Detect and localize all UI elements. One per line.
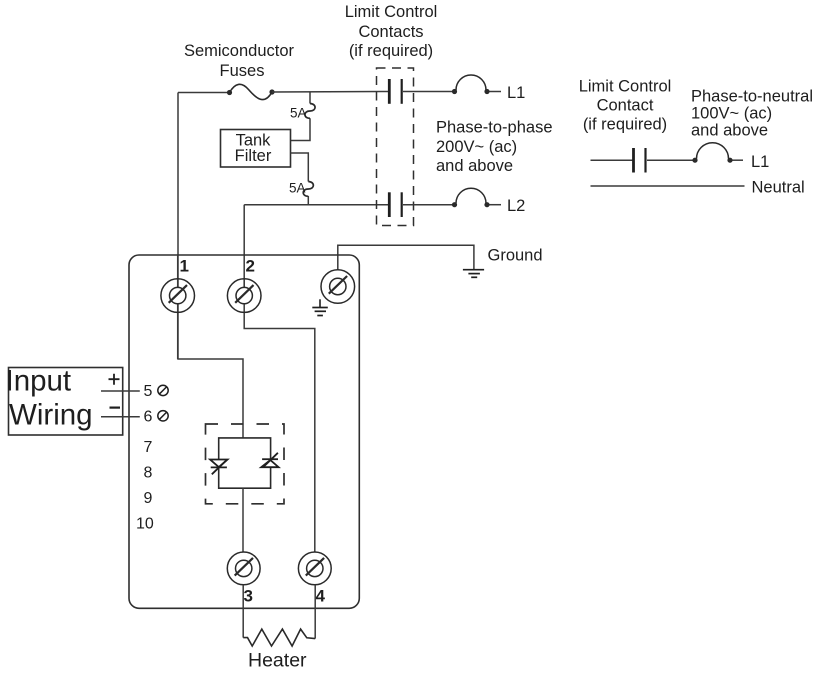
label Semiconductor Fuses	[184, 42, 295, 80]
label Phase-to-phase 200V (ac) and above	[436, 119, 553, 176]
svg-text:Heater: Heater	[248, 650, 307, 672]
right diagram: wire contact to plug	[647, 159, 695, 161]
right diagram: wire L1 left	[591, 159, 633, 161]
wire terminal 2 to terminal 4	[244, 279, 315, 552]
svg-text:100V~ (ac): 100V~ (ac)	[691, 105, 772, 123]
wire fuse to contact K1	[272, 91, 388, 94]
wire left drop from fuse to terminal 1	[178, 93, 243, 439]
svg-text:1: 1	[180, 257, 189, 276]
svg-text:L1: L1	[507, 84, 525, 102]
input wiring box	[6, 365, 123, 436]
svg-text:4: 4	[316, 587, 326, 606]
ground symbol top right	[463, 270, 484, 278]
svg-text:200V~ (ac): 200V~ (ac)	[436, 138, 517, 156]
pin 6 no-connect circle	[158, 411, 168, 421]
plus mark	[109, 374, 120, 385]
plug arc L1	[452, 75, 501, 94]
svg-text:Ground: Ground	[488, 247, 543, 265]
wire SCR to terminal 3	[242, 488, 244, 552]
svg-text:Input: Input	[6, 365, 72, 398]
wire input minus to pin 6	[101, 416, 140, 418]
tank filter box	[221, 130, 291, 168]
wire contact K2 to plug L2	[403, 204, 455, 206]
svg-text:Phase-to-neutral: Phase-to-neutral	[691, 88, 813, 106]
plug arc L2	[452, 188, 501, 207]
wire ground terminal to earth	[338, 245, 474, 270]
svg-text:(if required): (if required)	[349, 42, 433, 60]
svg-text:Wiring: Wiring	[9, 399, 93, 432]
svg-text:6: 6	[144, 408, 153, 425]
fuse 5A upper branch wire	[291, 92, 311, 141]
svg-text:L1: L1	[751, 153, 769, 171]
svg-text:2: 2	[246, 257, 255, 276]
wire contact K1 to plug L1	[403, 91, 455, 93]
terminal 2 screw	[227, 279, 261, 313]
svg-text:Limit Control: Limit Control	[345, 3, 438, 21]
ground symbol inside box	[312, 299, 328, 315]
contact K2 lower limit contact	[389, 192, 401, 217]
svg-text:Limit Control: Limit Control	[579, 78, 672, 96]
wire terminal 4 to heater	[314, 585, 316, 639]
label Limit Control Contacts (if required)	[345, 3, 438, 60]
svg-text:5A: 5A	[289, 181, 306, 196]
terminal ground screw	[321, 270, 355, 304]
wire terminal 1 through-drop	[177, 255, 179, 359]
svg-text:L2: L2	[507, 197, 525, 215]
svg-text:Fuses: Fuses	[220, 62, 265, 80]
thyristor SCR2 right	[261, 453, 278, 467]
SCR bridge rectangle	[219, 438, 271, 488]
terminal 1 screw	[161, 279, 195, 313]
pin 5 no-connect circle	[158, 385, 168, 395]
svg-text:Neutral: Neutral	[752, 179, 805, 197]
wire terminal 2 riser	[243, 205, 245, 287]
wire L1 phase top horizontal left segment	[178, 92, 230, 94]
right diagram: label Limit Control Contact (if required)	[579, 78, 672, 134]
terminal 3 screw	[227, 552, 260, 585]
right diagram: contact K3	[634, 148, 646, 173]
svg-text:9: 9	[144, 490, 153, 507]
wire input plus to pin 5	[101, 390, 140, 392]
svg-text:Phase-to-phase: Phase-to-phase	[436, 119, 553, 137]
svg-text:8: 8	[144, 464, 153, 481]
dashed box SCR module	[206, 424, 285, 504]
right diagram: plug arc L1	[692, 143, 743, 163]
svg-text:and above: and above	[691, 122, 768, 140]
svg-text:10: 10	[136, 516, 154, 533]
svg-text:Contact: Contact	[597, 97, 654, 115]
thyristor SCR1 left	[210, 460, 227, 475]
svg-text:5: 5	[144, 383, 153, 400]
terminal 4 screw	[298, 552, 331, 585]
svg-text:Contacts: Contacts	[358, 23, 423, 41]
fuse 5A upper squiggle	[305, 104, 315, 119]
svg-text:7: 7	[144, 439, 153, 456]
svg-text:Semiconductor: Semiconductor	[184, 42, 295, 60]
wire 5A lower to L2 wire	[307, 196, 309, 205]
svg-text:Filter: Filter	[235, 147, 272, 165]
contact K1 upper limit contact	[389, 79, 401, 104]
fuse F1 semiconductor fuse	[227, 84, 275, 99]
svg-text:(if required): (if required)	[583, 116, 667, 134]
right diagram: neutral wire	[591, 185, 745, 187]
wire tank filter to 5A lower branch	[291, 153, 309, 182]
fuse 5A lower squiggle	[303, 182, 313, 197]
svg-text:and above: and above	[436, 157, 513, 175]
dashed box limit control contacts	[377, 68, 414, 226]
svg-text:3: 3	[244, 587, 253, 606]
wire terminal 3 to heater	[242, 585, 244, 638]
minus mark	[110, 407, 121, 409]
right diagram: label Phase-to-neutral 100V (ac) and above	[691, 88, 813, 140]
resistor heater element	[243, 629, 315, 646]
relay main box	[129, 255, 359, 608]
svg-text:5A: 5A	[290, 106, 307, 121]
wire L2 phase horizontal	[244, 204, 388, 206]
